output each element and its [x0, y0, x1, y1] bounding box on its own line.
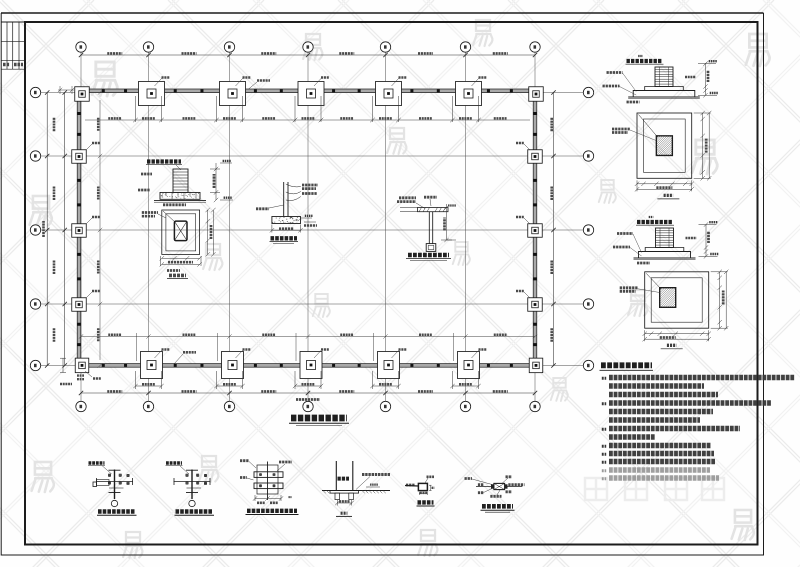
footing QJ-1 top 3 — [220, 82, 246, 106]
footing JJ right — [528, 224, 543, 238]
QJ leader labels top — [155, 79, 162, 87]
corner QJ-4 label — [85, 371, 92, 377]
notes title 基础设计说明 — [601, 362, 652, 368]
row dimension numbers left/right — [53, 117, 56, 131]
grid bubbles right E-A — [583, 87, 593, 97]
footing QJ corner bottom 7 — [529, 358, 543, 373]
footing JJ left — [72, 150, 87, 164]
footing QJ-1 top 4 — [298, 82, 324, 106]
footing QJ corner top 1 — [75, 87, 90, 102]
right panel RP2: footing plan — [637, 113, 692, 178]
inner vertical dim near left wall — [98, 90, 102, 367]
bottom detail BD3: ZJ-1,2 shear key plan — [254, 462, 283, 501]
footing QJ-1 bottom 6 — [458, 352, 480, 379]
footing QJ corner top 7 — [529, 87, 544, 102]
wall pilaster dots — [78, 89, 537, 367]
QJ leader labels bottom — [155, 351, 162, 359]
bottom wall — [79, 364, 537, 368]
footing QJ-1 top 5 — [376, 82, 402, 106]
footing QJ-1 bottom 5 — [378, 352, 400, 379]
right panel RP4: footing plan — [645, 272, 709, 328]
sub dims below top wall footings — [133, 96, 480, 389]
left wall — [77, 89, 81, 367]
corner footing dim bracket top-left — [58, 86, 74, 94]
detail D3: brick wall foundation — [272, 182, 301, 224]
right panel RP1: stepped footing section — [627, 59, 663, 63]
gouzaozhu leader label bottom wall — [183, 351, 196, 354]
bottom detail ZJ-1: anchor bolt plan — [89, 461, 105, 464]
footing QJ-1 top 2 — [139, 82, 165, 106]
footing JJ left — [72, 224, 87, 238]
footing QJ-1 top 6 — [456, 82, 482, 106]
inner sub dimension under top wall — [85, 118, 530, 122]
left total dim chain — [42, 221, 45, 237]
watermark big faint site text bottom right — [585, 478, 724, 500]
footing QJ-1 bottom 2 — [141, 352, 163, 379]
corner footing left bracket + stacked dims — [60, 358, 66, 372]
column grid lines vertical — [41, 52, 584, 401]
footing QJ-1 bottom 3 — [222, 352, 244, 379]
grid bubbles top 1-7 — [76, 42, 86, 52]
grid bubbles bottom 1-7 — [76, 401, 86, 411]
bay dimension numbers top — [107, 52, 122, 55]
bottom detail BD5: tie column section — [418, 483, 427, 490]
footing QJ-1 bottom 4 — [300, 352, 322, 379]
sheet outer top line — [1, 12, 764, 14]
footing JJ right — [528, 298, 543, 312]
title strip top-left — [1, 22, 25, 69]
JJ leader labels left/right — [86, 144, 92, 150]
plan title 基础平面布置图 — [291, 415, 347, 422]
footing JJ right — [528, 150, 543, 164]
gouzaozhu leader label top wall — [257, 79, 270, 82]
watermark yi glyphs — [92, 62, 117, 96]
notes text lines — [602, 377, 606, 380]
detail D1: stepped footing section (in-plan) — [0, 0, 1, 1]
top wall — [79, 89, 537, 93]
detail D4: U2 pile detail — [399, 196, 416, 199]
footing QJ corner bottom 1 — [75, 358, 89, 373]
right panel RP3: stepped footing section — [637, 220, 673, 224]
bottom detail ZJ-2: anchor bolt plan — [166, 461, 182, 464]
right wall — [533, 89, 537, 367]
title strip top line — [1, 21, 25, 23]
detail D2: footing plan J-1 (in-plan) — [162, 210, 200, 254]
inner sub dimension line above bottom wall — [79, 333, 537, 361]
footing JJ left — [72, 298, 87, 312]
grid bubbles left E-A — [30, 87, 40, 97]
bottom detail BD4: steel column base section — [322, 461, 390, 500]
top dimension line — [47, 55, 553, 393]
bay dimension numbers bottom — [107, 390, 122, 393]
bottom detail BD6: brick wall top ring beam — [476, 486, 522, 488]
